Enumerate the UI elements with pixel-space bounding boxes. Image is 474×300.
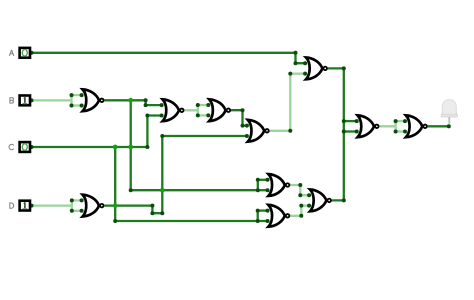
node: [150, 204, 154, 208]
node: [206, 113, 210, 117]
node: [80, 104, 84, 108]
NOR gate G6: [306, 58, 327, 80]
node: [307, 193, 311, 197]
node: [160, 103, 164, 107]
NOR gate G5: [248, 120, 269, 142]
wire stub to G4 in1: [198, 104, 209, 106]
node: [266, 188, 270, 192]
node: [129, 188, 133, 192]
node: [299, 204, 303, 208]
node: [288, 129, 292, 133]
label B: [10, 98, 14, 103]
wire G8 out to G10 in1: [290, 185, 309, 195]
node: [256, 178, 260, 182]
wire stub to G7 in1: [344, 120, 357, 122]
NOR gate G1: [83, 89, 104, 111]
wire D splitter vertical: [71, 200, 73, 210]
NOR gate G7: [358, 115, 379, 137]
wire G2 out to G5 in2: [104, 136, 247, 213]
node: [256, 188, 260, 192]
node: [80, 93, 84, 97]
node: [294, 51, 298, 55]
wire A to G6 in1: [32, 53, 306, 63]
LED output (off, gray): [441, 100, 457, 124]
wire stub to G11 in1: [396, 120, 405, 122]
NOR gate G11: [406, 115, 427, 137]
wire C to G3 in2: [32, 116, 162, 148]
node: [241, 124, 245, 128]
node: [70, 209, 74, 213]
node: [30, 51, 34, 55]
node: [160, 114, 164, 118]
node: [206, 103, 210, 107]
node: [80, 198, 84, 202]
node: [150, 211, 154, 215]
input D box: [20, 201, 30, 211]
wire stub to G4 in2: [198, 114, 209, 116]
node: [70, 93, 74, 97]
node: [80, 209, 84, 213]
node: [355, 119, 359, 123]
node: [266, 209, 270, 213]
wire stub to G8 in2: [258, 189, 268, 191]
node: [144, 98, 148, 102]
NOR gate G2: [83, 195, 104, 217]
NOR gate G9: [268, 205, 289, 227]
wire C branch vertical: [114, 147, 116, 221]
wire stub to G9 in2: [258, 220, 268, 222]
node: [288, 72, 292, 76]
node: [307, 204, 311, 208]
NOR gate G10: [310, 190, 331, 212]
label C: [9, 144, 14, 149]
wire D stub to G2 in1: [72, 199, 82, 201]
junction node: [128, 145, 133, 150]
node: [196, 113, 200, 117]
wire G1 out branch vertical: [130, 100, 132, 190]
node: [303, 61, 307, 65]
node: [113, 219, 117, 223]
wire G1 out branch to G8 splitter: [131, 189, 258, 191]
junction node: [113, 145, 118, 150]
node: [145, 114, 149, 118]
input A box: [20, 48, 30, 58]
node: [160, 134, 164, 138]
node: [145, 145, 149, 149]
node: [342, 119, 346, 123]
node: [245, 124, 249, 128]
NOR gate G8: [268, 174, 289, 196]
node: [30, 204, 34, 208]
wire G7 out to splitter: [379, 125, 395, 127]
node: [342, 198, 346, 202]
wire G9 out to G10 in2: [290, 206, 309, 216]
node: [266, 219, 270, 223]
node: [403, 130, 407, 134]
wire G1 out to G3 in1: [104, 100, 161, 105]
wire B to splitter: [32, 99, 72, 101]
wire G11 out to LED: [428, 125, 449, 127]
label A: [10, 50, 14, 55]
node: [342, 130, 346, 134]
wire stub to G11 in2: [396, 130, 405, 132]
node: [256, 219, 260, 223]
wire B stub to G1 in2: [72, 104, 82, 106]
wire stub to G9 in1: [258, 209, 268, 211]
wire G5 out to G6 in2: [270, 74, 306, 131]
wire B stub to G1 in1: [72, 94, 82, 96]
NOR gate G4: [209, 99, 230, 121]
node: [245, 134, 249, 138]
node: [256, 209, 260, 213]
node: [303, 72, 307, 76]
node: [299, 214, 303, 218]
node: [241, 108, 245, 112]
wire G8 splitter vertical: [257, 180, 259, 190]
junction node: [128, 98, 133, 103]
node: [394, 119, 398, 123]
wire G6 out down: [328, 68, 344, 121]
node: [342, 66, 346, 70]
node: [294, 61, 298, 65]
wire stub to G8 in1: [258, 179, 268, 181]
node: [355, 130, 359, 134]
wire C branch to G9 splitter: [115, 220, 258, 222]
label D: [10, 203, 14, 208]
node: [160, 211, 164, 215]
input B box: [20, 96, 30, 106]
node: [196, 103, 200, 107]
wire G4 splitter vertical: [197, 105, 199, 115]
wire D stub to G2 in2: [72, 210, 82, 212]
node: [298, 193, 302, 197]
input C box: [20, 142, 30, 152]
node: [447, 124, 451, 128]
node: [30, 98, 34, 102]
wire G11 splitter vertical: [394, 121, 396, 131]
NOR gate G3: [163, 99, 184, 121]
wire D to splitter: [32, 204, 72, 206]
node: [30, 145, 34, 149]
node: [266, 178, 270, 182]
node: [70, 198, 74, 202]
wire stub to G7 in2: [344, 130, 357, 132]
node: [403, 119, 407, 123]
node: [298, 183, 302, 187]
junction node: [113, 203, 118, 208]
node: [70, 104, 74, 108]
wire G10 out up: [332, 132, 344, 201]
wire G9 splitter vertical: [257, 211, 259, 221]
wire G4 out to G5 in1: [231, 110, 247, 125]
wire vertical overlap segment: [343, 121, 345, 131]
junction node: [160, 188, 165, 193]
node: [394, 130, 398, 134]
wire G3 out to splitter: [184, 109, 198, 111]
node: [144, 103, 148, 107]
wire B splitter vertical: [70, 95, 72, 105]
